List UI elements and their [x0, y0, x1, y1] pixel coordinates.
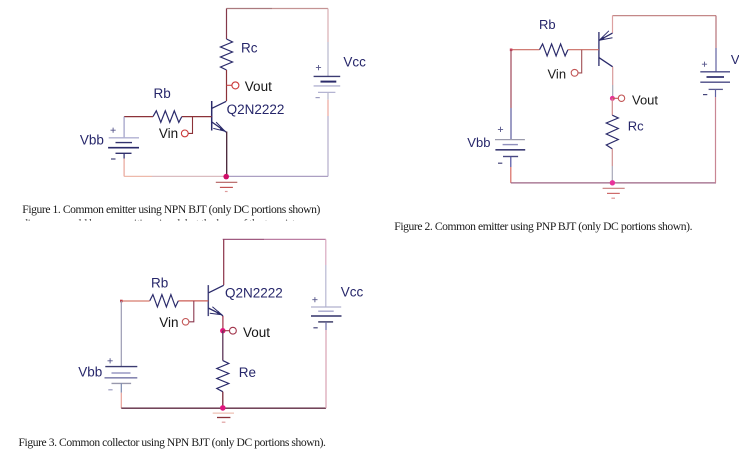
pin Vout fig1 stub — [227, 84, 232, 86]
battery Vbb fig3 — [105, 367, 138, 384]
svg-text:Rc: Rc — [628, 119, 644, 134]
wire emitter down fig3 — [222, 316, 224, 331]
polarity plus Vcc fig3 — [312, 297, 317, 302]
wire Vcc bottom fig3 — [325, 322, 327, 330]
svg-text:Vbb: Vbb — [78, 364, 102, 379]
resistor Rb fig2 — [540, 44, 568, 56]
transistor Q3 Q2N2222 — [208, 285, 223, 316]
svg-text:Rb: Rb — [151, 275, 168, 290]
transistor Q1 Q2N2222 — [212, 101, 227, 132]
junction node ground fig2 — [610, 180, 615, 185]
junction node fig1 ground — [223, 174, 229, 180]
pin Vout fig2 circle — [618, 95, 624, 101]
pin Vin fig3 stub — [189, 301, 194, 322]
svg-text:Q2N2222: Q2N2222 — [225, 285, 283, 300]
resistor Rc — [221, 39, 233, 70]
wire Re to ground fig3 — [222, 392, 224, 409]
polarity plus Vbb fig1 — [111, 128, 116, 133]
wire bottom rail fig3 — [121, 407, 326, 409]
wire base fig3 — [178, 300, 208, 302]
polarity minus Vcc fig2 — [703, 94, 707, 96]
wire right branch fig2 — [715, 16, 717, 48]
wire right branch fig3 — [325, 239, 327, 265]
svg-text:Vin: Vin — [159, 315, 178, 330]
ground fig2 — [603, 188, 625, 198]
svg-text:Vbb: Vbb — [467, 135, 490, 150]
pin Vin fig1 stub — [188, 117, 192, 134]
polarity minus Vcc fig3 — [313, 327, 317, 329]
wire Vout to Re fig3 — [222, 331, 224, 361]
wire base fig2 — [568, 49, 599, 51]
pin Vout fig3 circle — [230, 327, 237, 334]
wire top rail fig2 — [613, 15, 717, 17]
svg-text:Vout: Vout — [632, 93, 658, 108]
polarity minus Vbb fig2 — [498, 162, 502, 164]
wire base fig1 — [182, 116, 212, 118]
wire Vbb to Rb fig1 — [124, 116, 153, 118]
svg-text:Vbb: Vbb — [80, 133, 104, 148]
wire emitter corner fig2 — [612, 16, 614, 33]
polarity plus Vcc fig2 — [702, 62, 707, 67]
polarity plus Vbb fig3 — [108, 358, 113, 363]
junction corner dot fig3 — [120, 300, 123, 303]
pin Vout fig1 circle — [232, 82, 239, 89]
battery Vcc fig2 — [700, 72, 730, 90]
polarity minus Vcc fig1 — [316, 97, 320, 99]
wire corner to Rb fig2 — [511, 49, 540, 51]
wire Vout to Rc fig2 — [611, 98, 613, 115]
svg-text:Rb: Rb — [154, 86, 171, 101]
wire collector branch upper fig1 — [226, 9, 228, 40]
wire Vbb bottom stub fig2 — [510, 157, 512, 168]
ground fig1 — [216, 182, 238, 191]
transistor Q2 PNP — [599, 31, 613, 67]
svg-text:Vcc: Vcc — [731, 52, 739, 67]
battery Vbb fig2 — [495, 140, 525, 157]
battery Vcc fig1 — [314, 76, 341, 92]
svg-text:Q2N2222: Q2N2222 — [227, 102, 285, 117]
pin Vin fig3 circle — [182, 319, 189, 326]
svg-text:Vout: Vout — [243, 325, 270, 340]
svg-text:Re: Re — [239, 365, 256, 380]
svg-text:Vcc: Vcc — [343, 55, 366, 70]
wire collector down fig3 — [223, 239, 225, 285]
wire Rc to ground fig2 — [611, 149, 613, 166]
battery Vbb fig1 — [108, 138, 139, 154]
resistor Rb fig3 — [150, 295, 179, 307]
svg-text:Vin: Vin — [159, 126, 178, 141]
battery Vcc fig3 — [311, 307, 342, 322]
polarity minus Vbb fig3 — [108, 389, 112, 391]
svg-text:Vout: Vout — [245, 79, 272, 94]
wire Vcc bottom fig1 — [327, 92, 329, 99]
wire Vbb bottom stub fig1 — [123, 153, 125, 158]
wire Vbb top stub fig1 — [123, 117, 125, 138]
polarity plus Vcc fig1 — [316, 65, 321, 70]
wire Rc to collector — [226, 70, 228, 101]
wire Vcc bottom fig2 — [715, 89, 717, 97]
junction node ground fig3 — [220, 405, 226, 411]
wire bottom rail fig2 — [511, 182, 716, 184]
svg-text:Figure 3. Common collector usi: Figure 3. Common collector using NPN BJT… — [19, 436, 327, 449]
wire Vbb bottom stub fig3 — [120, 383, 122, 392]
wire top rail fig1 — [227, 8, 273, 10]
wire emitter down fig1 — [226, 132, 228, 177]
junction node Vout fig3 — [220, 328, 225, 333]
pin Vout fig2 stub — [612, 97, 618, 99]
pin Vin fig2 stub — [578, 50, 581, 73]
svg-text:Figure 1. Common emitter using: Figure 1. Common emitter using NPN BJT (… — [22, 203, 320, 216]
polarity minus Vbb fig1 — [111, 158, 116, 160]
pin Vin fig1 circle — [181, 130, 188, 137]
resistor Re — [217, 361, 229, 392]
polarity plus Vbb fig2 — [498, 127, 503, 132]
wire left branch fig3 — [120, 301, 122, 367]
svg-text:Vcc: Vcc — [341, 285, 364, 300]
wire collector down fig2 — [612, 67, 614, 85]
pin Vout fig3 stub — [223, 330, 230, 332]
svg-text:Figure 2. Common emitter using: Figure 2. Common emitter using PNP BJT (… — [394, 220, 692, 233]
wire corner to Rb fig3 — [121, 300, 149, 302]
svg-text:Vin: Vin — [548, 66, 567, 81]
resistor Rb fig1 — [153, 111, 182, 123]
junction corner dot fig2 — [510, 49, 513, 52]
svg-text:Rb: Rb — [539, 17, 556, 32]
pin Vin fig2 circle — [571, 69, 578, 76]
junction node Vout fig2 — [610, 96, 615, 101]
wire bottom rail fig1 — [124, 175, 152, 177]
ground fig3 — [213, 413, 234, 422]
resistor Rc fig2 — [606, 115, 618, 149]
wire left branch fig2 — [510, 50, 512, 108]
svg-text:Rc: Rc — [241, 41, 258, 56]
wire top rail fig3 — [223, 238, 264, 240]
wire Vcc branch fig1 — [327, 9, 329, 43]
